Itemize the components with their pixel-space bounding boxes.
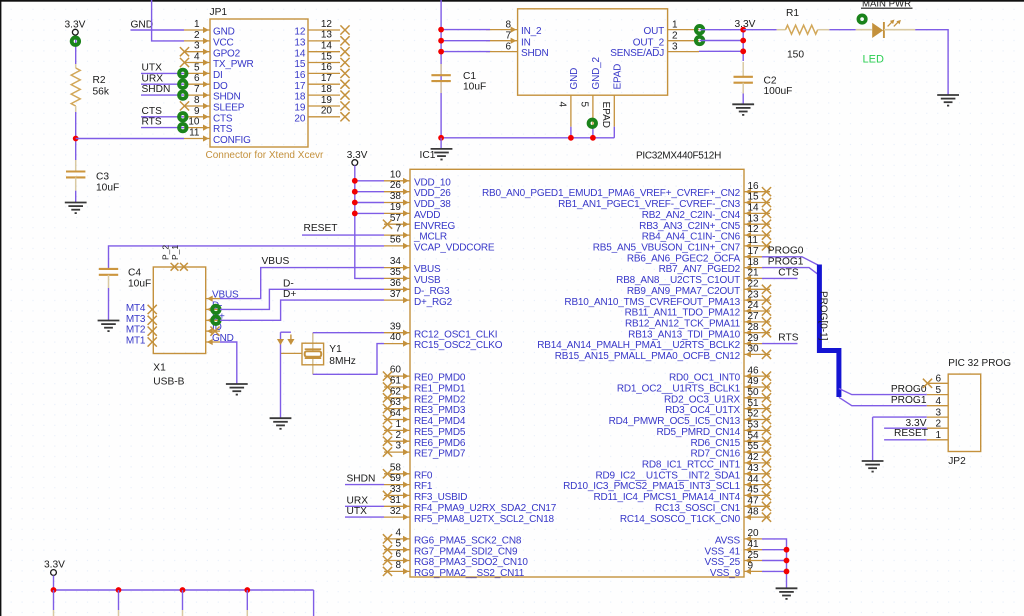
svg-text:RB3_AN3_C2IN+_CN5: RB3_AN3_C2IN+_CN5	[639, 221, 740, 232]
svg-text:SHDN: SHDN	[142, 84, 171, 95]
svg-text:47: 47	[748, 496, 760, 507]
svg-text:46: 46	[748, 365, 760, 376]
svg-text:VDD_26: VDD_26	[414, 188, 451, 199]
svg-text:RE6_PMD6: RE6_PMD6	[414, 438, 466, 449]
svg-text:1: 1	[194, 19, 200, 30]
svg-text:MT1: MT1	[126, 336, 146, 347]
svg-text:16: 16	[748, 181, 760, 192]
svg-text:53: 53	[748, 420, 760, 431]
svg-text:VSS_9: VSS_9	[710, 568, 741, 579]
svg-text:14: 14	[748, 203, 760, 214]
svg-text:6: 6	[194, 73, 200, 84]
svg-text:VBUS: VBUS	[414, 264, 441, 275]
svg-text:10uF: 10uF	[463, 81, 486, 92]
svg-text:RB5_AN5_VBUSON_C1IN+_CN7: RB5_AN5_VBUSON_C1IN+_CN7	[593, 243, 741, 254]
svg-text:19: 19	[321, 95, 333, 106]
svg-text:18: 18	[321, 84, 333, 95]
svg-text:4: 4	[556, 102, 567, 108]
svg-text:25: 25	[748, 550, 760, 561]
svg-text:VUSB: VUSB	[414, 275, 441, 286]
svg-text:R2: R2	[93, 75, 106, 86]
svg-text:20: 20	[748, 528, 760, 539]
svg-text:39: 39	[390, 321, 402, 332]
svg-text:VDD_10: VDD_10	[414, 177, 451, 188]
svg-text:8: 8	[395, 560, 401, 571]
svg-text:OUT: OUT	[643, 26, 664, 37]
svg-text:42: 42	[748, 452, 760, 463]
svg-text:3: 3	[935, 408, 941, 419]
svg-text:150: 150	[787, 50, 804, 61]
svg-text:RG7_PMA4_SDI2_CN9: RG7_PMA4_SDI2_CN9	[414, 546, 518, 557]
svg-text:UTX: UTX	[142, 63, 163, 74]
svg-text:AVDD: AVDD	[414, 210, 440, 221]
svg-text:52: 52	[748, 409, 760, 420]
svg-text:17: 17	[748, 246, 760, 257]
svg-text:DO: DO	[213, 81, 228, 92]
svg-text:6: 6	[395, 549, 401, 560]
svg-text:30: 30	[748, 344, 760, 355]
svg-text:1: 1	[935, 430, 941, 441]
svg-text:PROG1: PROG1	[768, 257, 804, 268]
svg-text:RF4_PMA9_U2RX_SDA2_CN17: RF4_PMA9_U2RX_SDA2_CN17	[414, 503, 557, 514]
svg-text:VCAP_VDDCORE: VCAP_VDDCORE	[414, 243, 495, 254]
svg-text:62: 62	[390, 386, 402, 397]
svg-text:15: 15	[748, 192, 760, 203]
svg-text:RB4_AN4_C1IN-_CN6: RB4_AN4_C1IN-_CN6	[642, 232, 741, 243]
svg-text:55: 55	[748, 441, 760, 452]
svg-text:RD0_OC1_INT0: RD0_OC1_INT0	[669, 373, 741, 384]
svg-text:11: 11	[189, 128, 200, 139]
svg-text:29: 29	[748, 333, 760, 344]
svg-text:20: 20	[321, 106, 333, 117]
svg-text:GND: GND	[213, 27, 235, 38]
svg-text:RF3_USBID: RF3_USBID	[414, 492, 467, 503]
svg-text:6: 6	[935, 374, 941, 385]
svg-text:4: 4	[395, 528, 401, 539]
svg-text:EPAD: EPAD	[612, 64, 623, 90]
svg-text:RD3_OC4_U1TX: RD3_OC4_U1TX	[665, 405, 740, 416]
svg-text:19: 19	[294, 103, 306, 114]
svg-text:X1: X1	[153, 362, 166, 373]
svg-text:PROG1: PROG1	[891, 395, 927, 406]
svg-text:28: 28	[748, 322, 760, 333]
svg-text:100uF: 100uF	[764, 86, 793, 97]
svg-text:RD5_PMRD_CN14: RD5_PMRD_CN14	[656, 427, 740, 438]
svg-text:41: 41	[748, 539, 760, 550]
svg-text:16: 16	[294, 70, 306, 81]
svg-text:54: 54	[748, 430, 760, 441]
svg-text:24: 24	[748, 300, 760, 311]
svg-text:USB-B: USB-B	[153, 376, 184, 387]
svg-text:C3: C3	[96, 172, 109, 183]
svg-text:8: 8	[194, 95, 200, 106]
svg-text:VDD_38: VDD_38	[414, 199, 451, 210]
svg-text:P_1: P_1	[170, 245, 180, 260]
svg-text:22: 22	[748, 279, 760, 290]
svg-text:RD8_IC1_RTCC_INT1: RD8_IC1_RTCC_INT1	[642, 460, 741, 471]
svg-text:2: 2	[935, 419, 941, 430]
svg-text:VCC: VCC	[213, 38, 234, 49]
svg-text:2: 2	[395, 430, 401, 441]
svg-text:8: 8	[505, 20, 511, 31]
svg-text:RD9_IC2__U1CTS__INT2_SDA1: RD9_IC2__U1CTS__INT2_SDA1	[595, 470, 740, 481]
svg-text:RB12_AN12_TCK_PMA11: RB12_AN12_TCK_PMA11	[625, 319, 741, 330]
svg-text:51: 51	[748, 398, 760, 409]
svg-text:RC13_SOSCI_CN1: RC13_SOSCI_CN1	[655, 503, 741, 514]
svg-text:31: 31	[390, 495, 402, 506]
svg-text:RG6_PMA5_SCK2_CN8: RG6_PMA5_SCK2_CN8	[414, 536, 522, 547]
svg-text:VSS_41: VSS_41	[705, 546, 741, 557]
svg-text:Y1: Y1	[329, 344, 342, 355]
svg-text:SHDN: SHDN	[521, 48, 549, 59]
svg-text:38: 38	[390, 191, 402, 202]
svg-text:RF0: RF0	[414, 470, 433, 481]
svg-text:RD2_OC3_U1RX: RD2_OC3_U1RX	[664, 394, 740, 405]
svg-text:7: 7	[505, 31, 511, 42]
svg-text:RTS: RTS	[142, 117, 162, 128]
svg-text:LED: LED	[863, 54, 884, 66]
svg-text:43: 43	[748, 463, 760, 474]
svg-text:RB15_AN15_PMALL_PMA0_OCFB_CN12: RB15_AN15_PMALL_PMA0_OCFB_CN12	[555, 351, 741, 362]
svg-text:AVSS: AVSS	[715, 536, 741, 547]
svg-text:RE5_PMD5: RE5_PMD5	[414, 427, 466, 438]
svg-text:RC14_SOSCO_T1CK_CN0: RC14_SOSCO_T1CK_CN0	[620, 514, 741, 525]
svg-text:37: 37	[390, 289, 402, 300]
svg-text:PIC32MX440F512H: PIC32MX440F512H	[636, 150, 721, 161]
svg-text:GND_2: GND_2	[591, 57, 602, 90]
svg-text:CONFIG: CONFIG	[213, 135, 251, 146]
svg-text:33: 33	[390, 484, 402, 495]
svg-text:PROG0: PROG0	[768, 246, 804, 257]
svg-text:9: 9	[748, 561, 754, 572]
svg-text:7: 7	[194, 84, 200, 95]
svg-text:6: 6	[505, 42, 511, 53]
svg-text:3.3V: 3.3V	[735, 19, 756, 30]
svg-text:45: 45	[748, 485, 760, 496]
svg-text:4: 4	[194, 52, 200, 63]
svg-text:56k: 56k	[93, 86, 110, 97]
svg-text:SLEEP: SLEEP	[213, 103, 245, 114]
svg-text:JP1: JP1	[210, 7, 228, 18]
svg-text:MT3: MT3	[126, 314, 146, 325]
svg-text:5: 5	[935, 385, 941, 396]
svg-text:RB6_AN6_PGEC2_OCFA: RB6_AN6_PGEC2_OCFA	[627, 253, 741, 264]
svg-text:3.3V: 3.3V	[347, 150, 368, 161]
svg-text:PIC 32 PROG: PIC 32 PROG	[948, 358, 1011, 369]
svg-text:RB9_AN9_PMA7_C2OUT: RB9_AN9_PMA7_C2OUT	[627, 286, 740, 297]
svg-text:50: 50	[748, 387, 760, 398]
svg-text:CTS: CTS	[778, 267, 799, 278]
svg-text:5: 5	[194, 62, 200, 73]
svg-text:C2: C2	[764, 75, 777, 86]
svg-text:32: 32	[390, 506, 402, 517]
svg-text:UTX: UTX	[347, 506, 368, 517]
svg-text:RF1: RF1	[414, 481, 433, 492]
svg-text:SHDN: SHDN	[213, 92, 241, 103]
svg-text:RB14_AN14_PMALH_PMA1__U2RTS_BC: RB14_AN14_PMALH_PMA1__U2RTS_BCLK2	[537, 340, 740, 351]
svg-text:3: 3	[395, 441, 401, 452]
svg-text:PROG0: PROG0	[891, 384, 927, 395]
svg-text:9: 9	[194, 106, 200, 117]
svg-text:RD6_CN15: RD6_CN15	[690, 438, 740, 449]
svg-text:27: 27	[748, 311, 760, 322]
svg-text:20: 20	[294, 113, 306, 124]
svg-text:D-_RG3: D-_RG3	[414, 286, 450, 297]
svg-text:44: 44	[748, 474, 760, 485]
svg-text:RE1_PMD1: RE1_PMD1	[414, 384, 466, 395]
svg-text:34: 34	[390, 256, 402, 267]
svg-text:RE0_PMD0: RE0_PMD0	[414, 373, 466, 384]
svg-text:RE4_PMD4: RE4_PMD4	[414, 416, 466, 427]
svg-text:RB7_AN7_PGED2: RB7_AN7_PGED2	[659, 264, 741, 275]
svg-text:RB10_AN10_TMS_CVREFOUT_PMA13: RB10_AN10_TMS_CVREFOUT_PMA13	[564, 297, 740, 308]
svg-text:GND: GND	[569, 68, 580, 90]
svg-text:IC1: IC1	[420, 150, 436, 161]
svg-text:58: 58	[390, 462, 402, 473]
svg-text:1: 1	[395, 419, 401, 430]
svg-text:JP2: JP2	[948, 456, 966, 467]
svg-text:RC12_OSC1_CLKI: RC12_OSC1_CLKI	[414, 329, 497, 340]
svg-text:57: 57	[390, 213, 402, 224]
svg-text:MT4: MT4	[126, 303, 146, 314]
svg-text:URX: URX	[347, 495, 369, 506]
svg-text:OUT_2: OUT_2	[633, 37, 665, 48]
svg-text:C4: C4	[128, 268, 141, 279]
svg-text:13: 13	[321, 30, 333, 41]
svg-text:RC15_OSC2_CLKO: RC15_OSC2_CLKO	[414, 340, 503, 351]
svg-text:CTS: CTS	[213, 113, 233, 124]
svg-text:MT2: MT2	[126, 325, 146, 336]
svg-text:21: 21	[748, 268, 760, 279]
svg-text:12: 12	[294, 27, 306, 38]
svg-text:VSS_25: VSS_25	[705, 557, 741, 568]
svg-text:RD7_CN16: RD7_CN16	[690, 449, 740, 460]
svg-text:RESET: RESET	[894, 428, 928, 439]
svg-text:5: 5	[395, 538, 401, 549]
svg-text:61: 61	[390, 376, 402, 387]
svg-text:Connector for Xtend Xcevr: Connector for Xtend Xcevr	[206, 150, 325, 161]
svg-text:RG9_PMA2__SS2_CN11: RG9_PMA2__SS2_CN11	[414, 568, 525, 579]
svg-text:D-: D-	[283, 278, 294, 289]
svg-text:7: 7	[395, 224, 401, 235]
svg-text:35: 35	[390, 267, 402, 278]
svg-text:RG8_PMA3_SDO2_CN10: RG8_PMA3_SDO2_CN10	[414, 557, 528, 568]
svg-text:SENSE/ADJ: SENSE/ADJ	[610, 48, 664, 59]
svg-text:RB11_AN11_TDO_PMA12: RB11_AN11_TDO_PMA12	[625, 308, 741, 319]
svg-text:60: 60	[390, 365, 402, 376]
svg-text:36: 36	[390, 278, 402, 289]
svg-text:RF5_PMA8_U2TX_SCL2_CN18: RF5_PMA8_U2TX_SCL2_CN18	[414, 514, 555, 525]
svg-text:D+_RG2: D+_RG2	[414, 297, 453, 308]
svg-text:IN: IN	[521, 37, 531, 48]
svg-text:_MCLR: _MCLR	[413, 232, 447, 243]
svg-text:EPAD: EPAD	[600, 102, 611, 129]
svg-text:12: 12	[748, 224, 760, 235]
svg-text:12: 12	[321, 19, 333, 30]
svg-text:IN_2: IN_2	[521, 26, 542, 37]
svg-text:CTS: CTS	[142, 106, 163, 117]
svg-text:SHDN: SHDN	[347, 474, 376, 485]
svg-text:URX: URX	[142, 73, 164, 84]
svg-text:2: 2	[194, 30, 200, 41]
svg-text:14: 14	[294, 48, 306, 59]
svg-text:15: 15	[321, 51, 333, 62]
svg-text:15: 15	[294, 59, 306, 70]
svg-text:23: 23	[748, 289, 760, 300]
svg-text:10uF: 10uF	[128, 278, 151, 289]
svg-text:VBUS: VBUS	[262, 256, 290, 267]
svg-text:14: 14	[321, 41, 333, 52]
svg-text:RTS: RTS	[213, 124, 233, 135]
svg-text:D+: D+	[283, 289, 296, 300]
svg-text:R1: R1	[786, 8, 799, 19]
svg-text:DI: DI	[213, 70, 223, 81]
svg-text:17: 17	[321, 73, 333, 84]
svg-text:GND: GND	[131, 19, 154, 30]
svg-text:RD1_OC2__U1RTS_BCLK1: RD1_OC2__U1RTS_BCLK1	[617, 384, 741, 395]
svg-text:13: 13	[748, 213, 760, 224]
svg-text:RB8_AN8__U2CTS_C1OUT: RB8_AN8__U2CTS_C1OUT	[616, 275, 740, 286]
svg-text:3: 3	[672, 42, 678, 53]
svg-text:RD11_IC4_PMCS1_PMA14_INT4: RD11_IC4_PMCS1_PMA14_INT4	[593, 492, 740, 503]
svg-text:48: 48	[748, 506, 760, 517]
svg-text:RB13_AN13_TDI_PMA10: RB13_AN13_TDI_PMA10	[628, 329, 740, 340]
svg-text:3.3V: 3.3V	[44, 559, 65, 570]
svg-text:RE7_PMD7: RE7_PMD7	[414, 449, 466, 460]
svg-text:1: 1	[672, 20, 678, 31]
svg-text:GPO2: GPO2	[213, 48, 241, 59]
svg-text:RB1_AN1_PGEC1_VREF-_CVREF-_CN3: RB1_AN1_PGEC1_VREF-_CVREF-_CN3	[558, 199, 740, 210]
svg-text:18: 18	[294, 92, 306, 103]
svg-text:4: 4	[935, 396, 941, 407]
svg-text:17: 17	[294, 81, 306, 92]
svg-text:10: 10	[390, 169, 402, 180]
svg-text:26: 26	[390, 180, 402, 191]
svg-text:RE3_PMD3: RE3_PMD3	[414, 405, 466, 416]
svg-text:16: 16	[321, 62, 333, 73]
svg-text:TX_PWR: TX_PWR	[213, 59, 253, 70]
svg-text:5: 5	[578, 102, 589, 108]
svg-text:63: 63	[390, 397, 402, 408]
svg-text:RB0_AN0_PGED1_EMUD1_PMA6_VREF+: RB0_AN0_PGED1_EMUD1_PMA6_VREF+_CVREF+_CN…	[482, 188, 741, 199]
svg-text:RB2_AN2_C2IN-_CN4: RB2_AN2_C2IN-_CN4	[642, 210, 741, 221]
svg-text:PROG[0-1]: PROG[0-1]	[817, 291, 828, 341]
svg-text:8MHz: 8MHz	[329, 356, 356, 367]
svg-text:40: 40	[390, 332, 402, 343]
svg-text:RD10_IC3_PMCS2_PMA15_INT3_SCL1: RD10_IC3_PMCS2_PMA15_INT3_SCL1	[563, 481, 741, 492]
svg-text:RD4_PMWR_OC5_IC5_CN13: RD4_PMWR_OC5_IC5_CN13	[609, 416, 741, 427]
svg-text:56: 56	[390, 235, 402, 246]
svg-text:RESET: RESET	[304, 223, 338, 234]
svg-text:RE2_PMD2: RE2_PMD2	[414, 394, 466, 405]
svg-text:10uF: 10uF	[96, 182, 119, 193]
svg-text:11: 11	[748, 235, 759, 246]
svg-text:ENVREG: ENVREG	[414, 221, 455, 232]
svg-text:RTS: RTS	[778, 332, 798, 343]
svg-text:2: 2	[672, 31, 678, 42]
svg-text:49: 49	[748, 376, 760, 387]
svg-text:13: 13	[294, 38, 306, 49]
svg-text:59: 59	[390, 473, 402, 484]
svg-text:18: 18	[748, 257, 760, 268]
svg-text:10: 10	[188, 117, 200, 128]
svg-text:64: 64	[390, 408, 402, 419]
svg-text:3: 3	[194, 41, 200, 52]
svg-text:19: 19	[390, 202, 402, 213]
